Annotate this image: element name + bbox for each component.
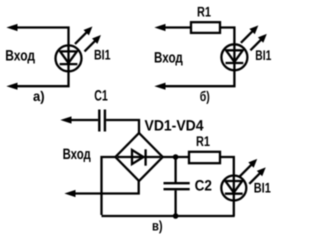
svg-text:R1: R1 [197, 4, 211, 20]
svg-text:Вход: Вход [63, 146, 92, 163]
circuit b: bottom input arrow [156, 83, 165, 89]
circuit a: bottom input wire [12, 71, 69, 86]
LED BI1 (circuit v) [221, 160, 264, 201]
circuit v: upper input wire to C1 [66, 119, 98, 121]
svg-text:Вход: Вход [154, 50, 183, 67]
light arrows of BI1 (circuit b) [241, 30, 254, 43]
svg-text:C2: C2 [195, 178, 212, 195]
wire R1 to LED (circuit v) [220, 157, 234, 176]
wire bridge right corner to R1 [163, 156, 189, 158]
svg-text:Вход: Вход [5, 48, 35, 65]
svg-text:BI1: BI1 [255, 47, 271, 63]
resistor R1 (circuit b) [191, 22, 220, 33]
svg-text:в): в) [152, 218, 163, 234]
circuit a: top input arrow [8, 25, 17, 31]
circuit b: top input wire [160, 26, 191, 28]
circuit b: top input arrow [156, 25, 165, 31]
circuit b: bottom input wire [160, 70, 234, 86]
wire bridge left corner to minus bus [102, 157, 116, 215]
wire R1 to LED (circuit b) [220, 28, 234, 45]
circuit a: bottom input arrow [8, 83, 17, 89]
wire C1 to bridge top corner [106, 120, 139, 133]
node junction dot at C2 bottom [173, 213, 179, 219]
svg-text:б): б) [200, 88, 210, 104]
svg-text:R1: R1 [196, 133, 210, 149]
minus bus wire [102, 215, 235, 217]
light arrows of BI1 (circuit a) [75, 31, 88, 44]
svg-text:C1: C1 [94, 87, 108, 104]
resistor R1 (circuit v) [189, 152, 220, 163]
circuit v: lower input arrow [66, 191, 75, 197]
circuit a: top input wire [12, 28, 69, 46]
node junction dot at C2 top [173, 154, 179, 160]
svg-text:BI1: BI1 [94, 47, 111, 63]
LED BI1 (circuit b) [221, 26, 266, 70]
capacitor C2 [174, 157, 176, 182]
LED BI1 (circuit a) [56, 27, 101, 71]
light arrows of BI1 (circuit v) [240, 160, 265, 184]
wire LED to minus bus (circuit v) [233, 201, 235, 217]
diode bridge VD1-VD4 [115, 133, 162, 181]
capacitor C1 [98, 110, 100, 132]
svg-text:BI1: BI1 [254, 179, 271, 195]
circuit v: lower input wire to bridge bottom corner [70, 181, 139, 194]
circuit v: upper input arrow [62, 117, 71, 123]
svg-text:VD1-VD4: VD1-VD4 [145, 117, 205, 134]
svg-text:а): а) [33, 88, 45, 104]
